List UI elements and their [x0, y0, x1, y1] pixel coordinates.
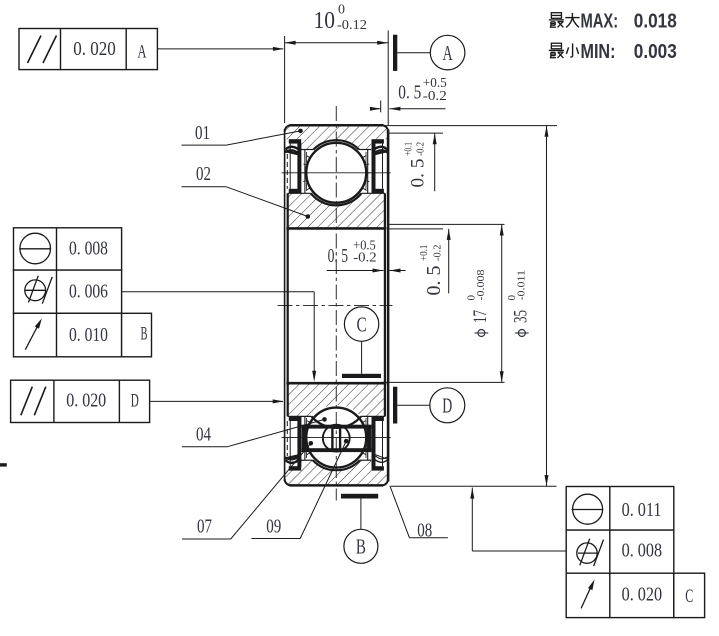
svg-text:0. 008: 0. 008 — [622, 539, 662, 561]
right shield bottom: blob — [372, 417, 384, 422]
svg-text:0.018: 0.018 — [634, 10, 677, 33]
chamfer ext line top (phi35 top ext) — [383, 125, 557, 127]
svg-text:0. 5: 0. 5 — [328, 244, 348, 266]
inner ring bottom section (hatched) — [288, 383, 385, 416]
datum circle B — [344, 529, 378, 563]
land verticals bottom — [304, 416, 306, 460]
F1 parallelism symbol — [28, 36, 42, 64]
land verticals top — [304, 150, 306, 194]
svg-text:A: A — [443, 41, 453, 65]
svg-text:+0.1: +0.1 — [418, 245, 430, 261]
datum target C bar — [342, 374, 381, 378]
cage left flange — [302, 425, 307, 452]
left shield bottom: dashed line — [286, 421, 288, 456]
datum A connector line — [397, 52, 430, 54]
svg-text:-0.12: -0.12 — [337, 17, 367, 33]
svg-text:0: 0 — [338, 3, 345, 18]
right shield bottom: cap — [372, 466, 384, 470]
inner ring left face — [287, 193, 289, 416]
right shield top: bar — [372, 143, 376, 193]
svg-text:35: 35 — [510, 310, 531, 323]
svg-text:D: D — [131, 391, 139, 412]
top ball axis line — [282, 172, 391, 174]
rivet shaft right — [339, 425, 341, 452]
F3 leader arrow — [150, 400, 283, 402]
feature control frame F1 parallelism — [19, 29, 157, 70]
datum target D bar — [393, 387, 397, 424]
svg-text:10: 10 — [314, 7, 335, 33]
outer ring bottom section (hatched) — [285, 460, 389, 485]
svg-text:-0.2: -0.2 — [423, 89, 447, 104]
right shield top: thin wall — [382, 144, 384, 189]
left seal lip curls bottom — [286, 460, 300, 463]
outer ring left face — [284, 130, 286, 482]
F1 leader arrow — [157, 48, 283, 50]
left shield bottom: bar — [297, 417, 301, 467]
svg-text:01: 01 — [195, 121, 210, 144]
svg-text:C: C — [685, 586, 693, 606]
outer ring right face — [387, 130, 390, 482]
phi17 dimension line — [501, 225, 503, 383]
left shield top: dashed line — [286, 154, 288, 189]
svg-text:B: B — [356, 535, 366, 558]
top chamfer text 0.5+0.1-0.2 rotated — [404, 142, 429, 188]
left seal lip curls top — [286, 147, 300, 150]
svg-text:04: 04 — [196, 422, 211, 445]
svg-text:-0.011: -0.011 — [516, 270, 527, 301]
svg-text:09: 09 — [266, 514, 281, 537]
svg-text:+0.1: +0.1 — [404, 142, 416, 156]
right shield top: bottom blob — [372, 189, 384, 194]
bottom ball axis line — [282, 437, 391, 439]
dim 10 extension line left — [284, 36, 286, 123]
F2 row2 cylindricity symbol — [25, 280, 46, 301]
feature control frame F3 parallelism D — [11, 380, 150, 422]
datum D connector — [397, 404, 430, 406]
cage bottom ribbon — [302, 448, 372, 452]
svg-text:-0.008: -0.008 — [475, 269, 486, 300]
bore chamfer dim line — [448, 229, 450, 294]
horizontal axis centerline — [278, 304, 393, 306]
left shield top: bottom blob — [289, 189, 301, 194]
svg-text:0. 020: 0. 020 — [73, 38, 115, 59]
svg-text:17: 17 — [470, 310, 491, 323]
outer ring top face — [290, 124, 384, 127]
vertical centerline — [335, 106, 337, 501]
right shield bottom: bar — [372, 417, 376, 467]
svg-text:0. 5: 0. 5 — [398, 81, 421, 103]
stray dash mark left edge — [0, 463, 7, 466]
cage top ribbon — [302, 425, 372, 429]
shoulder lines top section — [301, 149, 313, 151]
datum target B bar — [341, 494, 378, 499]
datum circle A — [430, 35, 465, 70]
dim 10 dimension line — [285, 42, 389, 44]
svg-text:0. 011: 0. 011 — [622, 498, 662, 520]
datum circle C — [344, 307, 378, 341]
feature control frame stack F2 — [14, 228, 152, 357]
F4 leader — [472, 550, 566, 552]
left shield top: cap — [289, 139, 301, 143]
bore chamfer ext line short — [389, 228, 443, 230]
svg-text:A: A — [138, 42, 147, 62]
outer ring groove arc (top) — [313, 140, 359, 149]
bore chamfer ext line long — [389, 223, 505, 225]
svg-text:-0.2: -0.2 — [353, 250, 376, 266]
svg-text:0. 020: 0. 020 — [622, 583, 662, 605]
shoulder lines bottom section — [288, 415, 312, 417]
datum C connector — [361, 341, 363, 374]
right shield top: cap — [372, 139, 384, 143]
left shield bottom: blob — [289, 417, 301, 422]
dim 10 extension line right — [387, 31, 389, 126]
outer ring top section (hatched) — [285, 125, 389, 149]
F4 row1 symbol circle-bar — [573, 494, 603, 524]
phi17 text rotated — [466, 269, 491, 336]
svg-text:0. 020: 0. 020 — [66, 389, 106, 411]
svg-text:0.003: 0.003 — [634, 40, 677, 63]
datum circle D — [430, 388, 465, 423]
ball bottom — [306, 408, 366, 468]
chamfer ext line top short — [389, 132, 443, 134]
left shield top: thin wall — [289, 144, 291, 189]
F4 row2 cylindricity symbol — [577, 543, 597, 563]
bore chamfer text rotated — [418, 245, 445, 296]
inner ring top section (hatched) — [288, 193, 385, 228]
seal gap dim 0.5 top: ext stub — [380, 101, 382, 113]
outer ring bottom face — [290, 484, 384, 487]
datum target A bar — [393, 35, 397, 71]
F4 row3 runout symbol — [581, 585, 592, 609]
inner ring right face — [384, 193, 386, 416]
bore top surface line — [286, 227, 386, 230]
svg-text:07: 07 — [197, 514, 212, 537]
bore bottom surface line — [286, 382, 386, 385]
svg-text:02: 02 — [196, 162, 211, 185]
svg-text:-0.2: -0.2 — [431, 245, 443, 261]
inner ring groove arc (bottom) — [312, 416, 362, 427]
phi35 dimension line — [546, 126, 548, 486]
inner ring groove arc (top) — [311, 193, 362, 205]
left shield top: bar — [297, 143, 301, 193]
feature control frame stack F4 — [566, 487, 704, 618]
top chamfer dim line — [434, 133, 436, 191]
right seal lip curls bottom — [374, 459, 387, 463]
right shield bottom: thin wall — [382, 421, 384, 466]
seal gap dim lines top — [370, 108, 381, 110]
svg-text:C: C — [357, 313, 367, 336]
recess dim 0.5 bore: dim lines — [327, 270, 384, 272]
svg-text:-0.2: -0.2 — [415, 142, 427, 156]
MAX MIN note — [549, 13, 564, 28]
svg-text:B: B — [141, 323, 148, 344]
svg-text:D: D — [442, 394, 452, 418]
datum B connector — [360, 499, 362, 530]
rivet head circle — [323, 425, 350, 452]
right seal lip curls top — [373, 147, 387, 150]
svg-text:0. 5: 0. 5 — [408, 159, 429, 188]
F2 leader to bore — [122, 291, 315, 293]
F2 row3 runout symbol — [25, 324, 39, 350]
svg-text:0. 010: 0. 010 — [69, 323, 108, 345]
svg-text:MAX:: MAX: — [581, 9, 619, 32]
groove shading ticks — [307, 188, 311, 190]
svg-text:0. 5: 0. 5 — [423, 265, 445, 295]
svg-text:MIN:: MIN: — [581, 39, 616, 62]
corner radii — [285, 125, 292, 132]
phi35 bottom ext line — [391, 485, 557, 487]
ball top — [306, 143, 366, 203]
left shield bottom: cap — [289, 466, 301, 470]
rivet shaft left — [331, 425, 333, 452]
phi35 text rotated — [506, 270, 531, 337]
svg-text:0. 008: 0. 008 — [69, 237, 108, 259]
svg-text:0. 006: 0. 006 — [69, 280, 108, 302]
F2 row1 symbol circle-bar — [20, 233, 51, 264]
cage right flange — [367, 425, 372, 452]
outer ring groove arc (bottom) — [313, 460, 360, 470]
phi17 bottom ext line — [381, 381, 505, 383]
F3 parallelism symbol — [21, 387, 33, 416]
left shield bottom: thin wall — [289, 421, 291, 466]
